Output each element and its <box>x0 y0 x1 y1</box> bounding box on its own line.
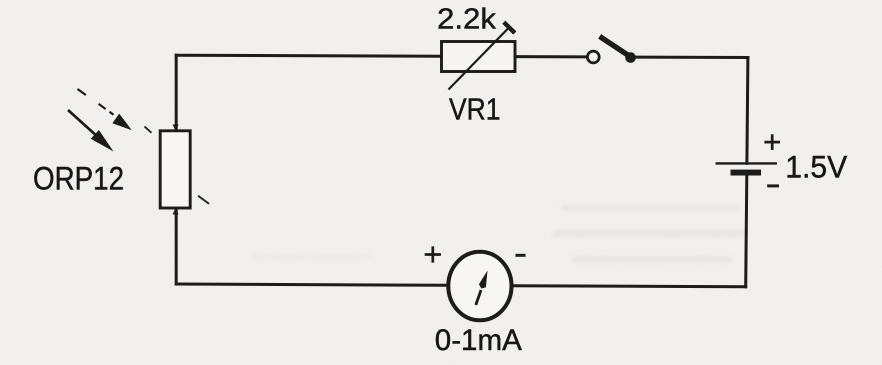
svg-text:VR1: VR1 <box>449 92 501 127</box>
svg-text:ORP12: ORP12 <box>33 161 124 197</box>
svg-text:0-1mA: 0-1mA <box>435 324 522 357</box>
svg-text:2.2k: 2.2k <box>437 4 497 36</box>
svg-text:1.5V: 1.5V <box>785 148 847 184</box>
